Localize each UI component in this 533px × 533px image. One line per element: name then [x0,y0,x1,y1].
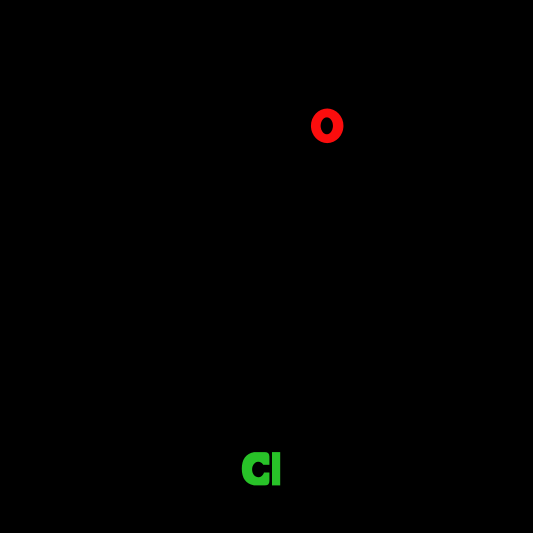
atom O (oxygen label, red) [311,109,344,144]
atom Cl (chlorine label, green): letter C [242,452,270,485]
atom Cl: letter l (vertical bar) [272,452,280,485]
